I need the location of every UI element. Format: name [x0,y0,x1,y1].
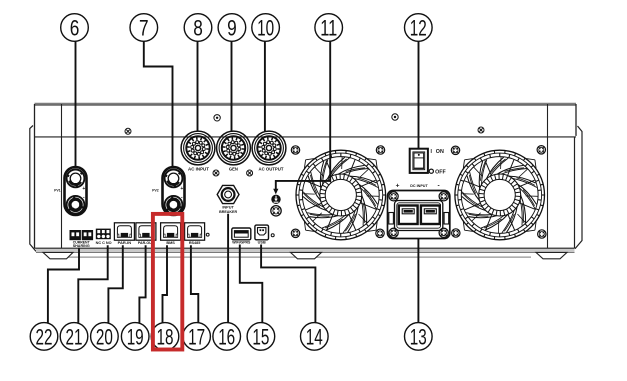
vent hole top left [214,115,220,121]
leader 7 [144,41,173,166]
mounting hole right of USB [271,234,274,237]
screw top band left [125,128,131,134]
DC INPUT label [396,183,440,190]
svg-text:15: 15 [252,324,269,349]
svg-text:20: 20 [96,324,113,349]
left fan [296,150,386,240]
screw below AC input [213,170,219,176]
svg-text:13: 13 [410,324,427,349]
DC connector screw TL [389,192,398,201]
input breaker [217,185,239,213]
callout 11 [315,14,343,42]
switch label I ON [431,149,445,155]
panel inset right edge [547,104,549,248]
svg-text:14: 14 [306,324,323,349]
callout 15 [247,323,275,351]
svg-text:+: + [396,183,400,190]
screw below GEN [247,170,253,176]
svg-text:WIFI/GPRS: WIFI/GPRS [232,241,251,245]
svg-text:OFF: OFF [435,169,446,175]
ground terminal [271,195,280,204]
switch label OFF [429,169,446,175]
svg-text:11: 11 [320,15,337,40]
callout 7 [130,14,158,42]
leader 8 [197,41,199,131]
right fan [455,150,545,240]
left fan screw BL [291,229,299,237]
svg-text:21: 21 [66,324,83,349]
svg-text:BMS: BMS [166,241,175,245]
svg-text:+: + [82,186,85,192]
screw top band right [478,127,484,133]
right fan screw BL [452,229,460,237]
PAR-OUT port [136,223,156,245]
current sharing connector [70,230,94,248]
svg-text:18: 18 [157,324,174,349]
USB-B port [255,225,269,245]
ground screw [271,206,281,216]
svg-text:16: 16 [218,324,235,349]
GEN connector [217,131,251,172]
svg-text:22: 22 [36,324,53,349]
leader 21 [78,245,107,323]
bottom lower strip [48,256,531,258]
PAR-IN port [114,223,134,245]
PV terminal PV1 [54,167,86,215]
leader 10 [264,41,266,131]
svg-text:I: I [431,149,433,155]
callout 21 [60,323,88,351]
highlight box item 18 [153,214,182,350]
callout 16 [213,323,241,351]
leader 12 [418,41,420,148]
callout 22 [30,323,58,351]
RS485 port [185,223,205,245]
AC OUTPUT connector [252,131,286,172]
svg-text:USB: USB [258,241,266,245]
right fan screw TL [451,146,459,154]
DC connector screw BL [389,228,398,237]
top panel seam [35,136,577,138]
foot middle [291,252,322,258]
callout 9 [218,14,246,42]
callout 19 [121,323,149,351]
callout 8 [184,14,212,42]
leader 19 [139,245,145,323]
svg-text:-: - [83,195,85,201]
svg-text:GEN: GEN [229,167,238,172]
svg-text:8: 8 [193,15,203,40]
left fan screw BR [376,229,384,237]
svg-text:6: 6 [70,15,80,40]
DC connector screw TR [439,192,448,201]
power switch [410,149,428,173]
WIFI/GPRS USB-A port [232,228,251,245]
right side face edge [575,126,583,249]
mounting hole right of RS485 [206,233,209,236]
svg-text:PV2: PV2 [152,189,159,193]
leader 13 [417,239,419,323]
chassis rear panel outline [35,104,577,248]
right fan screw BR [538,230,546,238]
svg-text:BREAKER: BREAKER [219,209,237,214]
svg-text:PAR-IN: PAR-IN [118,241,132,245]
leader 6 [75,41,77,166]
svg-text:-: - [437,183,439,190]
callout 14 [301,323,329,351]
left fan screw TR [376,146,384,154]
foot left [43,252,73,258]
svg-text:DC INPUT: DC INPUT [410,183,428,188]
svg-text:17: 17 [188,324,205,349]
NC C NO terminal [96,229,112,246]
panel inset left edge [61,104,63,248]
leader 18 [163,245,168,323]
svg-text:NC C NO: NC C NO [96,241,112,245]
svg-text:PV1: PV1 [54,189,61,193]
callout 6 [61,14,89,42]
leader 20 [108,245,122,323]
foot right [536,252,567,258]
leader 14 [261,245,315,323]
right fan screw TR [537,146,545,154]
PV terminal PV2 [152,167,184,215]
svg-text:RS485: RS485 [189,241,201,245]
svg-text:AC OUTPUT: AC OUTPUT [259,167,285,172]
callout 12 [405,14,433,42]
svg-text:-: - [181,195,183,201]
leader 11 [273,41,330,194]
svg-text:SHARING: SHARING [73,244,90,248]
BMS port [161,223,181,245]
svg-text:ON: ON [436,149,444,155]
svg-text:9: 9 [227,15,237,40]
bottom band [35,248,575,252]
callout 20 [91,323,119,351]
callout 17 [183,323,211,351]
svg-text:AC INPUT: AC INPUT [188,167,210,172]
callout 18 [151,323,179,351]
svg-text:10: 10 [257,15,274,40]
vent hole top right [392,114,398,120]
leader 17 [191,245,198,323]
AC INPUT connector [181,131,215,172]
leader 9 [231,41,233,131]
callout 10 [252,14,280,42]
svg-text:+: + [180,186,183,192]
left side face edge [30,126,36,252]
leader 15 [240,245,262,323]
svg-text:7: 7 [139,15,149,40]
svg-text:19: 19 [127,324,144,349]
DC connector screw BR [439,228,448,237]
leader 22 [48,248,79,323]
svg-text:12: 12 [410,15,427,40]
leader 16 [227,214,229,323]
DC INPUT connector [388,191,450,239]
callout 13 [405,323,433,351]
left fan screw TL [291,146,299,154]
